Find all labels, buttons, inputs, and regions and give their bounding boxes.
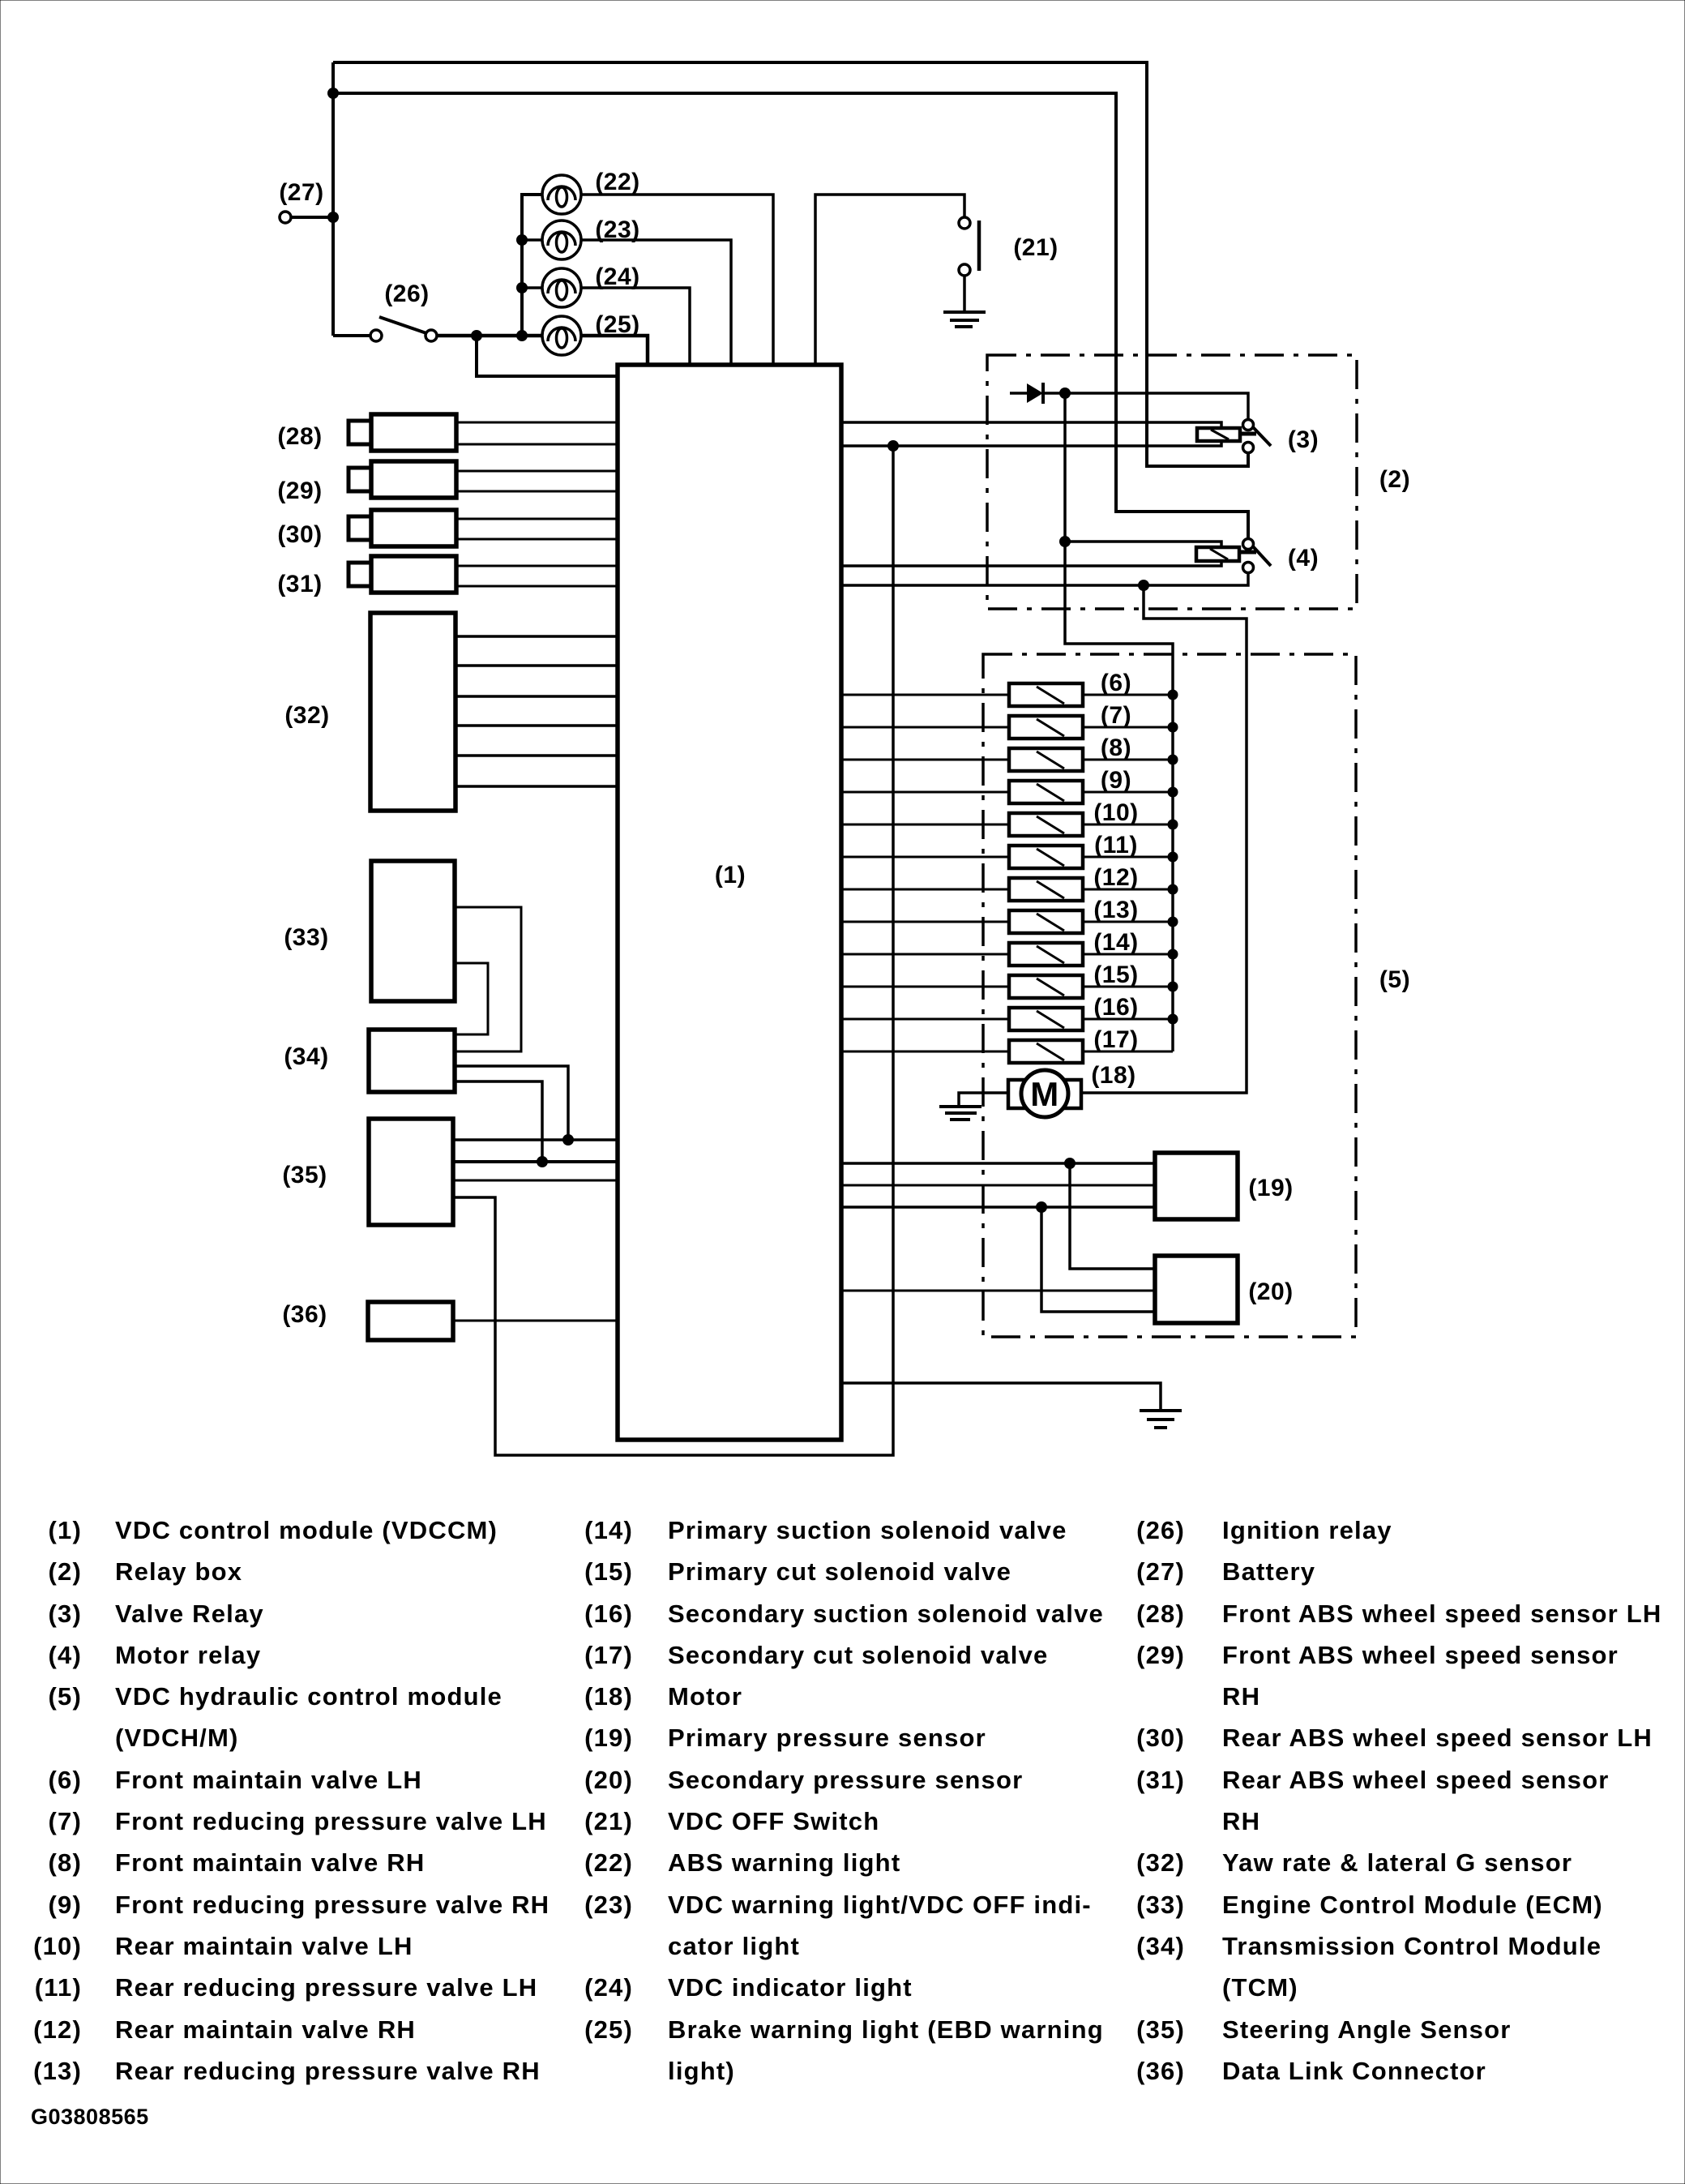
- wire valve 11 to common rail: [1083, 856, 1173, 859]
- svg-text:(32): (32): [284, 702, 329, 729]
- svg-text:Rear ABS wheel speed sensor LH: Rear ABS wheel speed sensor LH: [1222, 1724, 1653, 1752]
- svg-text:(26): (26): [1136, 1516, 1185, 1544]
- svg-text:M: M: [1030, 1075, 1059, 1113]
- svg-text:(13): (13): [33, 2057, 82, 2085]
- svg-text:(6): (6): [1101, 670, 1131, 696]
- wire VDCCM to valve 6: [841, 694, 1009, 696]
- junction valve rail node 14: [1168, 949, 1178, 960]
- svg-text:(23): (23): [584, 1891, 633, 1919]
- svg-text:VDC hydraulic control module: VDC hydraulic control module: [115, 1682, 503, 1711]
- svg-text:(33): (33): [284, 924, 328, 951]
- svg-text:Rear maintain valve RH: Rear maintain valve RH: [115, 2015, 416, 2044]
- svg-text:(22): (22): [595, 169, 639, 195]
- wire valve 9 to common rail: [1083, 791, 1173, 794]
- svg-text:Valve Relay: Valve Relay: [115, 1599, 264, 1628]
- wire lamp 25 to VDCCM: [581, 336, 648, 365]
- wire VDCCM to valve 15: [841, 986, 1009, 988]
- svg-text:(19): (19): [584, 1724, 633, 1752]
- svg-text:(9): (9): [1101, 767, 1131, 794]
- wire motor relay coil bracket: [841, 542, 1221, 566]
- wire VDCCM to valve 14: [841, 953, 1009, 956]
- svg-text:RH: RH: [1222, 1807, 1260, 1835]
- wire yaw sensor pin 3: [455, 695, 618, 698]
- wire valve 6 to common rail: [1083, 694, 1173, 696]
- wire lamp 24 to VDCCM: [581, 288, 690, 365]
- steering angle sensor (35): [282, 1119, 453, 1225]
- wire ECM to TCM A: [455, 907, 521, 1051]
- svg-text:(14): (14): [1093, 929, 1138, 956]
- svg-text:light): light): [668, 2057, 735, 2085]
- solenoid valve (8): [1009, 734, 1131, 771]
- diode D1: [1010, 383, 1043, 404]
- svg-text:(TCM): (TCM): [1222, 1973, 1298, 2002]
- data link connector (36): [282, 1301, 453, 1340]
- wire VDCCM to secondary pressure sensor pin2: [841, 1290, 1155, 1292]
- wire VDCCM to primary pressure sensor pin1: [841, 1158, 1155, 1169]
- wire top supply rail 1 to valve relay contact: [333, 62, 1248, 466]
- wire VDCCM to valve 7: [841, 726, 1009, 729]
- wire switched feed to VDCCM: [477, 336, 618, 376]
- wire sensor 29 pin B: [456, 490, 618, 493]
- svg-text:(34): (34): [284, 1043, 328, 1070]
- svg-text:(12): (12): [1093, 864, 1138, 891]
- wire top supply rail 2 to motor relay contact: [327, 88, 1248, 539]
- battery (27): [279, 179, 339, 223]
- ABS warning light (22): [542, 169, 640, 214]
- svg-text:VDC control module (VDCCM): VDC control module (VDCCM): [115, 1516, 498, 1544]
- relay box (2) enclosure: [987, 355, 1410, 609]
- svg-text:(17): (17): [1093, 1026, 1138, 1053]
- wire VDCCM to valve 8: [841, 759, 1009, 761]
- svg-text:(6): (6): [49, 1766, 83, 1794]
- wire VDCCM to VDC OFF switch: [815, 195, 964, 365]
- motor relay (4): [1196, 539, 1319, 573]
- VDC control module U1 (1): [618, 365, 841, 1440]
- svg-text:Front reducing pressure valve: Front reducing pressure valve LH: [115, 1807, 547, 1835]
- svg-text:(22): (22): [584, 1848, 633, 1877]
- VDC OFF switch (21): [959, 217, 1058, 276]
- svg-text:(26): (26): [384, 280, 429, 307]
- wire motor to ground: [959, 1093, 1008, 1107]
- svg-text:(11): (11): [1094, 832, 1138, 859]
- junction valve rail node 9: [1168, 787, 1178, 798]
- wire lamp 22 to VDCCM: [581, 195, 773, 365]
- svg-text:(24): (24): [595, 263, 639, 290]
- svg-text:VDC warning light/VDC OFF indi: VDC warning light/VDC OFF indi-: [668, 1891, 1092, 1919]
- svg-text:(5): (5): [1379, 966, 1410, 993]
- wire lamp supply rail: [516, 195, 541, 336]
- solenoid valve (13): [1009, 897, 1139, 933]
- wire VDCCM to valve 17: [841, 1051, 1009, 1053]
- wire valve 13 to common rail: [1083, 921, 1173, 923]
- svg-text:(24): (24): [584, 1973, 633, 2002]
- wire valve 10 to common rail: [1083, 824, 1173, 826]
- junction lamp rail: [516, 330, 528, 341]
- svg-text:(28): (28): [1136, 1599, 1185, 1628]
- svg-text:(17): (17): [584, 1641, 633, 1669]
- wire lamp 23 to VDCCM: [581, 240, 731, 365]
- solenoid valve (11): [1009, 832, 1138, 868]
- wire VDCCM to valve 10: [841, 824, 1009, 826]
- wire VDCCM to valve 11: [841, 856, 1009, 859]
- solenoid valve (10): [1009, 799, 1139, 836]
- ground at VDC OFF switch: [943, 312, 986, 327]
- svg-text:(3): (3): [1288, 426, 1319, 453]
- wire yaw sensor pin 6: [455, 785, 618, 788]
- svg-text:(9): (9): [49, 1891, 83, 1919]
- ground at motor: [939, 1107, 981, 1120]
- wire VDCCM to valve 16: [841, 1018, 1009, 1021]
- svg-text:Relay box: Relay box: [115, 1557, 242, 1586]
- svg-text:Steering Angle Sensor: Steering Angle Sensor: [1222, 2015, 1512, 2044]
- wire TCM to VDCCM D: [455, 1081, 548, 1167]
- solenoid valve (9): [1009, 767, 1131, 803]
- svg-text:Front maintain valve LH: Front maintain valve LH: [115, 1766, 422, 1794]
- svg-text:(21): (21): [1013, 234, 1058, 261]
- svg-text:(33): (33): [1136, 1891, 1185, 1919]
- svg-text:RH: RH: [1222, 1682, 1260, 1711]
- svg-text:Rear maintain valve LH: Rear maintain valve LH: [115, 1932, 413, 1960]
- wire steering sensor pin 3: [453, 1180, 618, 1182]
- svg-text:(5): (5): [49, 1682, 83, 1711]
- wire VDCCM to valve 13: [841, 921, 1009, 923]
- svg-text:(1): (1): [715, 862, 746, 889]
- solenoid valve (6): [1009, 670, 1131, 706]
- svg-text:(35): (35): [1136, 2015, 1185, 2044]
- svg-text:Primary pressure sensor: Primary pressure sensor: [668, 1724, 986, 1752]
- junction valve rail node 8: [1168, 755, 1178, 765]
- junction valve rail node 16: [1168, 1014, 1178, 1025]
- solenoid valve (16): [1009, 994, 1139, 1030]
- svg-text:(10): (10): [1093, 799, 1138, 826]
- wire VDCCM to primary pressure sensor pin3: [841, 1201, 1155, 1213]
- VDC hydraulic control module (5) enclosure: [983, 654, 1410, 1337]
- wire yaw sensor pin 2: [455, 664, 618, 667]
- svg-text:Front maintain valve RH: Front maintain valve RH: [115, 1848, 425, 1877]
- svg-text:(1): (1): [49, 1516, 83, 1544]
- wire valve 16 to common rail: [1083, 1018, 1173, 1021]
- front/rear ABS wheel speed sensor (28): [277, 414, 456, 451]
- svg-text:(34): (34): [1136, 1932, 1185, 1960]
- junction valve rail node 12: [1168, 884, 1178, 895]
- wire motor relay contact to VDCCM: [841, 572, 1248, 591]
- junction ignition feed: [471, 330, 482, 341]
- svg-text:(27): (27): [1136, 1557, 1185, 1586]
- solenoid valve (12): [1009, 864, 1139, 901]
- VDC warning light (23): [522, 216, 640, 259]
- junction valve rail node 6: [1168, 690, 1178, 700]
- svg-text:(20): (20): [1248, 1278, 1293, 1305]
- svg-text:(29): (29): [277, 477, 322, 504]
- transmission control module (34): [284, 1030, 455, 1092]
- wire sensor 30 pin B: [456, 538, 618, 541]
- wire valve 14 to common rail: [1083, 953, 1173, 956]
- junction valve rail node 10: [1168, 820, 1178, 830]
- svg-text:Rear reducing pressure valve R: Rear reducing pressure valve RH: [115, 2057, 541, 2085]
- wire sensor 28 pin A: [456, 422, 618, 424]
- svg-text:Data Link Connector: Data Link Connector: [1222, 2057, 1486, 2085]
- svg-text:(27): (27): [279, 179, 323, 206]
- legend column 2: [584, 1516, 1104, 2085]
- svg-text:(29): (29): [1136, 1641, 1185, 1669]
- svg-text:(21): (21): [584, 1807, 633, 1835]
- VDC indicator light (24): [522, 263, 640, 307]
- svg-text:Engine Control Module (ECM): Engine Control Module (ECM): [1222, 1891, 1603, 1919]
- wire sensor 29 pin A: [456, 470, 618, 473]
- wire valve 15 to common rail: [1083, 986, 1173, 988]
- yaw rate and lateral G sensor (32): [284, 613, 455, 811]
- wire VDCCM to valve 12: [841, 889, 1009, 891]
- svg-text:Front ABS wheel speed sensor: Front ABS wheel speed sensor: [1222, 1641, 1619, 1669]
- svg-text:(3): (3): [49, 1599, 83, 1628]
- svg-text:(11): (11): [35, 1973, 82, 2002]
- svg-text:Battery: Battery: [1222, 1557, 1315, 1586]
- svg-text:(25): (25): [584, 2015, 633, 2044]
- wire valve 12 to common rail: [1083, 889, 1173, 891]
- wire ECM to TCM B: [455, 963, 488, 1034]
- svg-text:Primary cut solenoid valve: Primary cut solenoid valve: [668, 1557, 1011, 1586]
- front/rear ABS wheel speed sensor (31): [277, 556, 456, 597]
- svg-text:(18): (18): [1091, 1062, 1135, 1089]
- wire sensor 31 pin B: [456, 585, 618, 588]
- wire sensor 31 pin A: [456, 565, 618, 567]
- svg-text:Motor relay: Motor relay: [115, 1641, 261, 1669]
- svg-text:(2): (2): [1379, 466, 1410, 493]
- motor M (18): [1008, 1062, 1136, 1117]
- wire branch to secondary sensor pin3: [1041, 1207, 1155, 1312]
- svg-text:(28): (28): [277, 423, 322, 450]
- wire yaw sensor pin 1: [455, 635, 618, 638]
- svg-text:(15): (15): [584, 1557, 633, 1586]
- svg-text:(32): (32): [1136, 1848, 1185, 1877]
- junction valve rail node 15: [1168, 982, 1178, 992]
- junction valve rail node 7: [1168, 722, 1178, 733]
- wire switch to ground: [963, 276, 966, 314]
- svg-text:(4): (4): [1288, 545, 1319, 572]
- svg-text:Brake warning light (EBD warni: Brake warning light (EBD warning: [668, 2015, 1104, 2044]
- svg-text:(16): (16): [584, 1599, 633, 1628]
- svg-text:Rear reducing pressure valve L: Rear reducing pressure valve LH: [115, 1973, 537, 2002]
- solenoid valve (7): [1009, 702, 1131, 739]
- brake warning light (25): [542, 311, 640, 355]
- svg-text:(31): (31): [277, 571, 322, 597]
- svg-text:Front reducing pressure valve: Front reducing pressure valve RH: [115, 1891, 550, 1919]
- wire diode cathode to valve relay contact: [1043, 388, 1248, 419]
- wire TCM to VDCCM C: [455, 1066, 574, 1146]
- svg-text:(36): (36): [1136, 2057, 1185, 2085]
- wire valve 7 to common rail: [1083, 726, 1173, 729]
- primary pressure sensor (19): [1155, 1153, 1294, 1219]
- ignition relay switch (26): [333, 280, 541, 341]
- svg-text:(13): (13): [1093, 897, 1138, 923]
- svg-text:Yaw rate & lateral G sensor: Yaw rate & lateral G sensor: [1222, 1848, 1572, 1877]
- wire valve 17 to common rail: [1083, 1051, 1173, 1053]
- svg-text:Primary suction solenoid valve: Primary suction solenoid valve: [668, 1516, 1067, 1544]
- wire battery vertical feed: [331, 62, 335, 336]
- engine control module (33): [284, 861, 455, 1001]
- wire steering sensor pin 1: [453, 1138, 618, 1141]
- svg-text:(4): (4): [49, 1641, 83, 1669]
- svg-text:Rear ABS wheel speed sensor: Rear ABS wheel speed sensor: [1222, 1766, 1609, 1794]
- svg-text:(36): (36): [282, 1301, 327, 1328]
- wire sensor 28 pin B: [456, 443, 618, 446]
- solenoid valve (17): [1009, 1026, 1139, 1063]
- svg-text:(7): (7): [1101, 702, 1131, 729]
- svg-text:(30): (30): [277, 521, 322, 548]
- svg-text:(15): (15): [1093, 961, 1138, 988]
- svg-text:Ignition relay: Ignition relay: [1222, 1516, 1392, 1544]
- svg-text:(2): (2): [49, 1557, 83, 1586]
- solenoid valve (15): [1009, 961, 1139, 998]
- svg-text:(14): (14): [584, 1516, 633, 1544]
- svg-text:Secondary suction solenoid val: Secondary suction solenoid valve: [668, 1599, 1104, 1628]
- wire branch to secondary sensor pin1: [1070, 1163, 1155, 1269]
- svg-text:ABS warning light: ABS warning light: [668, 1848, 900, 1877]
- svg-text:(8): (8): [1101, 734, 1131, 761]
- svg-text:(16): (16): [1093, 994, 1138, 1021]
- svg-text:(20): (20): [584, 1766, 633, 1794]
- svg-text:G03808565: G03808565: [31, 2105, 149, 2129]
- wire VDCCM to primary pressure sensor pin2: [841, 1184, 1155, 1187]
- wire yaw sensor pin 5: [455, 754, 618, 757]
- wire motor relay to motor (18): [1081, 585, 1247, 1093]
- svg-text:(VDCH/M): (VDCH/M): [115, 1724, 239, 1752]
- svg-text:Transmission Control Module: Transmission Control Module: [1222, 1932, 1602, 1960]
- svg-text:(7): (7): [49, 1807, 83, 1835]
- wire VDCCM to valve relay coil bracket: [841, 422, 1221, 452]
- ground at VDCCM: [1140, 1411, 1182, 1428]
- legend column 1: [33, 1516, 550, 2085]
- front/rear ABS wheel speed sensor (30): [277, 510, 456, 548]
- wire steering sensor bottom loop to relay3 coil net: [453, 446, 893, 1455]
- svg-text:(35): (35): [282, 1162, 327, 1188]
- wire steering sensor pin 2: [453, 1160, 618, 1163]
- wire VDCCM to chassis ground: [841, 1383, 1161, 1411]
- junction valve rail node 13: [1168, 917, 1178, 927]
- legend column 3: [1136, 1516, 1661, 2085]
- svg-text:(18): (18): [584, 1682, 633, 1711]
- solenoid valve (14): [1009, 929, 1139, 966]
- wire DLC to VDCCM: [453, 1320, 618, 1322]
- wire VDCCM to valve 9: [841, 791, 1009, 794]
- secondary pressure sensor (20): [1155, 1256, 1294, 1323]
- svg-text:(30): (30): [1136, 1724, 1185, 1752]
- svg-text:VDC OFF Switch: VDC OFF Switch: [668, 1807, 879, 1835]
- wire sensor 30 pin A: [456, 518, 618, 520]
- svg-text:(19): (19): [1248, 1175, 1293, 1201]
- junction valve rail node 11: [1168, 852, 1178, 863]
- valve relay (3): [1197, 420, 1319, 454]
- svg-text:(10): (10): [33, 1932, 82, 1960]
- wire valve 8 to common rail: [1083, 759, 1173, 761]
- svg-text:Secondary pressure sensor: Secondary pressure sensor: [668, 1766, 1023, 1794]
- svg-text:Motor: Motor: [668, 1682, 742, 1711]
- wire diode net down to motor relay coil and solenoid rail: [1059, 393, 1173, 1051]
- svg-text:Front ABS wheel speed sensor L: Front ABS wheel speed sensor LH: [1222, 1599, 1661, 1628]
- svg-text:cator light: cator light: [668, 1932, 800, 1960]
- svg-text:VDC indicator light: VDC indicator light: [668, 1973, 913, 2002]
- front/rear ABS wheel speed sensor (29): [277, 461, 456, 504]
- svg-text:(8): (8): [49, 1848, 83, 1877]
- svg-text:(12): (12): [33, 2015, 82, 2044]
- svg-text:(31): (31): [1136, 1766, 1185, 1794]
- wire yaw sensor pin 4: [455, 724, 618, 727]
- svg-text:Secondary cut solenoid valve: Secondary cut solenoid valve: [668, 1641, 1048, 1669]
